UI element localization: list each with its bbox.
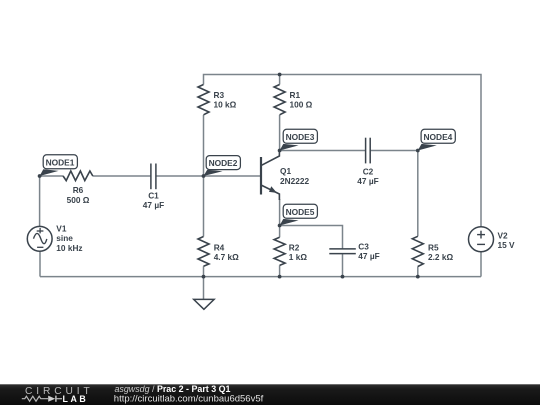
- wire R2 bottom: [279, 265, 281, 276]
- transistor Q1: [261, 151, 309, 200]
- junction at C3 bottom: [341, 275, 345, 279]
- wire NODE5 to R2: [279, 226, 281, 238]
- wire bottom rail: [40, 276, 481, 278]
- svg-text:47 µF: 47 µF: [143, 200, 164, 210]
- svg-text:2N2222: 2N2222: [280, 176, 309, 186]
- svg-text:10 kHz: 10 kHz: [56, 243, 82, 253]
- voltage source V2: [469, 227, 516, 252]
- svg-text:V2: V2: [498, 231, 509, 241]
- wire R3 bottom to NODE2: [203, 115, 205, 176]
- junction at R4 bottom: [202, 275, 206, 279]
- svg-text:4.7 kΩ: 4.7 kΩ: [214, 252, 239, 262]
- svg-text:R6: R6: [73, 185, 84, 195]
- svg-text:NODE2: NODE2: [209, 158, 238, 168]
- resistor R2: [274, 237, 307, 265]
- svg-text:C2: C2: [363, 167, 374, 177]
- ground: [194, 299, 214, 309]
- wire C1 to Q1 base via NODE2: [156, 175, 261, 177]
- svg-text:C3: C3: [358, 241, 369, 251]
- junction on top rail at R1: [278, 73, 282, 77]
- wire R4 bottom: [203, 266, 205, 276]
- svg-text:NODE5: NODE5: [286, 207, 315, 217]
- svg-text:15 V: 15 V: [498, 240, 516, 250]
- voltage source V1: [27, 224, 82, 253]
- svg-text:R5: R5: [428, 242, 439, 252]
- svg-text:1 kΩ: 1 kΩ: [289, 252, 308, 262]
- resistor R3: [198, 85, 237, 115]
- wire collector rail NODE3 to C2: [280, 150, 366, 152]
- svg-text:NODE4: NODE4: [423, 132, 452, 142]
- wire NODE4 to R5: [417, 151, 419, 237]
- wire V1 bottom: [39, 252, 41, 277]
- svg-text:http://circuitlab.com/cunbau6d: http://circuitlab.com/cunbau6d56v5f: [114, 393, 264, 404]
- svg-text:500 Ω: 500 Ω: [67, 195, 90, 205]
- svg-text:NODE3: NODE3: [286, 132, 315, 142]
- svg-text:V1: V1: [56, 224, 67, 234]
- svg-text:100 Ω: 100 Ω: [290, 100, 313, 110]
- svg-text:10 kΩ: 10 kΩ: [214, 100, 237, 110]
- wire emitter to NODE5: [279, 199, 281, 226]
- wire NODE1 to R6: [40, 175, 64, 177]
- node NODE4: [416, 129, 455, 152]
- node NODE3: [278, 129, 318, 152]
- logo diode: [48, 396, 55, 402]
- wire NODE5 to C3: [280, 226, 343, 249]
- resistor R5: [412, 236, 453, 266]
- svg-text:NODE1: NODE1: [46, 157, 75, 167]
- wire top rail: [204, 75, 482, 227]
- svg-text:LAB: LAB: [63, 394, 89, 404]
- svg-text:sine: sine: [56, 233, 73, 243]
- node NODE5: [278, 204, 318, 227]
- node NODE1: [38, 155, 78, 178]
- wire NODE2 to R4: [203, 176, 205, 237]
- svg-text:R3: R3: [214, 90, 225, 100]
- capacitor C2: [357, 138, 378, 187]
- junction at R2 bottom: [278, 275, 282, 279]
- capacitor C3: [329, 241, 379, 261]
- wire R5 bottom: [417, 267, 419, 277]
- resistor R6: [63, 171, 93, 205]
- wire R1 top stub: [279, 75, 281, 85]
- footer bar: [0, 384, 540, 405]
- logo resistor squiggle: [22, 396, 48, 401]
- junction at R5 bottom: [416, 275, 420, 279]
- svg-text:R2: R2: [289, 242, 300, 252]
- resistor R4: [198, 237, 239, 267]
- svg-text:R1: R1: [290, 90, 301, 100]
- svg-text:Q1: Q1: [280, 166, 291, 176]
- wire C3 bottom: [342, 254, 344, 277]
- svg-text:R4: R4: [214, 242, 225, 252]
- svg-text:47 µF: 47 µF: [357, 176, 378, 186]
- resistor R1: [274, 85, 313, 115]
- svg-text:47 µF: 47 µF: [358, 251, 379, 261]
- wire ground stub: [203, 277, 205, 300]
- node NODE2: [202, 156, 241, 178]
- wire V1 top: [39, 176, 41, 227]
- wire V2 bottom: [480, 251, 482, 276]
- svg-text:C1: C1: [148, 191, 159, 201]
- wire R1 bottom to NODE3: [279, 115, 281, 151]
- wire R6 to C1: [93, 175, 151, 177]
- capacitor C1: [143, 164, 164, 211]
- svg-text:2.2 kΩ: 2.2 kΩ: [428, 252, 453, 262]
- wire C2 to NODE4: [370, 150, 418, 152]
